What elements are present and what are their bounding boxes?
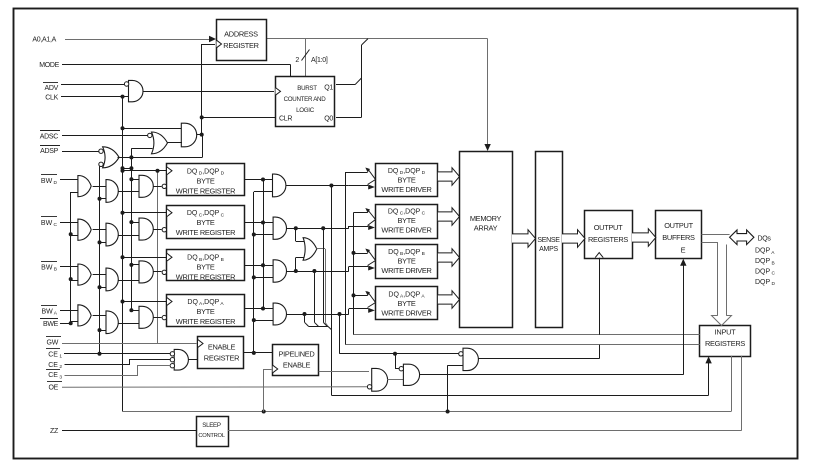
- svg-text:DQ A,DQP A: DQ A,DQP A: [187, 299, 224, 307]
- svg-text:LOGIC: LOGIC: [296, 107, 315, 114]
- svg-text:WRITE REGISTER: WRITE REGISTER: [176, 186, 235, 195]
- svg-text:OUTPUT: OUTPUT: [664, 221, 693, 230]
- svg-text:WRITE DRIVER: WRITE DRIVER: [381, 185, 431, 194]
- svg-text:E: E: [681, 246, 686, 255]
- svg-text:SLEEP: SLEEP: [202, 422, 221, 429]
- svg-text:WRITE DRIVER: WRITE DRIVER: [381, 309, 431, 318]
- svg-text:ARRAY: ARRAY: [474, 224, 498, 233]
- svg-text:BURST: BURST: [297, 85, 317, 92]
- svg-text:DQ B,DQP B: DQ B,DQP B: [187, 255, 224, 263]
- svg-text:ADSC: ADSC: [40, 134, 58, 141]
- svg-text:AMPS: AMPS: [539, 246, 558, 253]
- svg-text:BYTE: BYTE: [397, 176, 415, 185]
- svg-text:BYTE: BYTE: [196, 307, 214, 316]
- svg-text:DQ C,DQP C: DQ C,DQP C: [187, 210, 225, 218]
- svg-text:BWE: BWE: [43, 321, 59, 328]
- svg-text:BYTE: BYTE: [196, 176, 214, 185]
- svg-text:DQ D,DQP D: DQ D,DQP D: [187, 168, 225, 176]
- svg-text:ADDRESS: ADDRESS: [224, 30, 258, 39]
- svg-text:REGISTERS: REGISTERS: [705, 339, 745, 348]
- svg-text:CLK: CLK: [45, 95, 58, 102]
- svg-text:SENSE: SENSE: [537, 237, 560, 244]
- svg-text:GW: GW: [47, 339, 59, 346]
- svg-text:OE: OE: [48, 385, 58, 392]
- svg-text:BUFFERS: BUFFERS: [662, 233, 695, 242]
- svg-text:ADSP: ADSP: [40, 148, 58, 155]
- svg-text:A0,A1,A: A0,A1,A: [32, 37, 56, 44]
- svg-text:ENABLE: ENABLE: [208, 343, 236, 352]
- svg-text:ADV: ADV: [45, 85, 59, 92]
- svg-text:WRITE DRIVER: WRITE DRIVER: [381, 266, 431, 275]
- svg-text:BYTE: BYTE: [397, 216, 415, 225]
- svg-text:COUNTER AND: COUNTER AND: [284, 96, 327, 103]
- svg-text:Q1: Q1: [324, 85, 333, 92]
- svg-text:REGISTER: REGISTER: [223, 41, 258, 50]
- svg-text:ENABLE: ENABLE: [283, 361, 311, 370]
- svg-text:WRITE DRIVER: WRITE DRIVER: [381, 226, 431, 235]
- svg-text:Q0: Q0: [324, 116, 333, 123]
- svg-text:MODE: MODE: [39, 62, 59, 69]
- svg-text:REGISTER: REGISTER: [204, 354, 239, 363]
- svg-text:CLR: CLR: [279, 116, 292, 123]
- svg-text:2: 2: [295, 57, 299, 64]
- svg-text:REGISTERS: REGISTERS: [588, 235, 628, 244]
- svg-text:OUTPUT: OUTPUT: [594, 223, 623, 232]
- svg-text:WRITE REGISTER: WRITE REGISTER: [176, 228, 235, 237]
- svg-text:A[1:0]: A[1:0]: [311, 57, 328, 64]
- svg-text:DQs: DQs: [758, 235, 772, 242]
- svg-text:BYTE: BYTE: [397, 299, 415, 308]
- svg-text:BYTE: BYTE: [196, 218, 214, 227]
- svg-text:ZZ: ZZ: [50, 428, 59, 435]
- svg-text:BYTE: BYTE: [397, 257, 415, 266]
- svg-text:INPUT: INPUT: [715, 328, 736, 337]
- svg-text:WRITE REGISTER: WRITE REGISTER: [176, 273, 235, 282]
- svg-text:CONTROL: CONTROL: [198, 433, 225, 439]
- svg-text:PIPELINED: PIPELINED: [279, 350, 315, 359]
- svg-text:MEMORY: MEMORY: [470, 214, 502, 223]
- svg-text:BYTE: BYTE: [196, 263, 214, 272]
- svg-text:WRITE REGISTER: WRITE REGISTER: [176, 317, 235, 326]
